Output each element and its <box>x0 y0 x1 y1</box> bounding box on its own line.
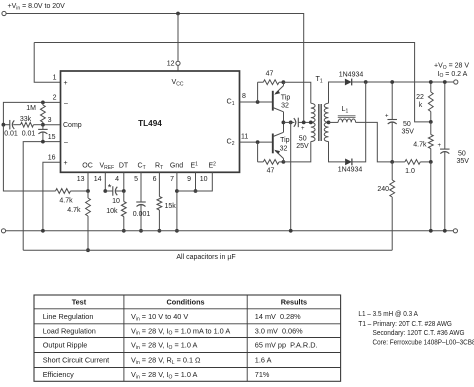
svg-text:1.0: 1.0 <box>405 168 415 175</box>
svg-text:Output Ripple: Output Ripple <box>43 341 88 350</box>
node E1 E2 bus to gnd <box>175 189 179 193</box>
resistor R 4.7k horizontal VREF <box>56 189 71 194</box>
svg-text:1M: 1M <box>26 105 36 112</box>
wire feedback line from output divider to pin 1 <box>34 43 430 122</box>
capacitor C 50uF 35V first filter <box>391 82 393 120</box>
svg-text:4.7k: 4.7k <box>59 197 73 204</box>
svg-text:240: 240 <box>377 186 389 193</box>
diode D1 1N4934 upper <box>345 79 352 86</box>
wire pin 8 C1 to Q1 base <box>240 101 273 103</box>
node primary center tap <box>309 121 313 125</box>
svg-text:1: 1 <box>53 75 57 82</box>
svg-text:L1 – 3.5 mH @ 0.3 A: L1 – 3.5 mH @ 0.3 A <box>358 310 418 318</box>
svg-text:11: 11 <box>241 133 248 140</box>
wire secondary top to diode D1 <box>329 82 345 103</box>
node C1 junction <box>256 100 260 104</box>
wire collector ground drop <box>290 122 292 230</box>
svg-text:14: 14 <box>94 176 102 183</box>
node +Vin primary junction <box>302 121 306 125</box>
svg-text:50: 50 <box>403 121 411 128</box>
svg-text:–: – <box>64 139 68 146</box>
svg-text:–: – <box>64 100 68 107</box>
wire pin 5 CT <box>140 172 142 202</box>
resistor R 22k divider top <box>430 82 432 92</box>
svg-text:Vin = 10 V to 40 V: Vin = 10 V to 40 V <box>131 312 188 322</box>
svg-text:Vin = 28 V, IO = 1.0 A: Vin = 28 V, IO = 1.0 A <box>131 370 198 380</box>
resistor R 1.0 ohm <box>405 160 420 165</box>
svg-text:DT: DT <box>119 163 129 170</box>
svg-text:5: 5 <box>134 176 138 183</box>
transistor Q2 TIP32 lower <box>272 134 274 154</box>
svg-text:Tip: Tip <box>280 137 290 144</box>
wire pin 11 C2 to Q2 base <box>240 141 274 143</box>
transformer T1 secondary winding <box>324 103 328 122</box>
node 10k ground junction <box>122 229 126 233</box>
svg-text:10: 10 <box>112 198 120 205</box>
node Q1 emitter junction <box>282 80 286 84</box>
svg-text:65 mV pp P.A.R.D.: 65 mV pp P.A.R.D. <box>255 341 318 350</box>
terminal +Vin input <box>2 11 6 15</box>
wire pin 2 <box>3 102 60 124</box>
wire pin 13 OC <box>87 172 89 191</box>
resistor R 33k horizontal <box>21 122 34 127</box>
node pin2 line - cap junction <box>2 123 6 127</box>
node ground drop junction <box>289 121 293 125</box>
node CT ground junction <box>139 229 143 233</box>
node D2 return junction <box>364 80 368 84</box>
svg-text:7: 7 <box>170 176 174 183</box>
svg-text:13: 13 <box>77 176 85 183</box>
terminal ground left <box>1 229 5 233</box>
node C2 junction <box>256 140 260 144</box>
wire pin 1 <box>34 43 60 83</box>
svg-text:32: 32 <box>280 145 288 152</box>
wire pin 4 DT <box>123 172 125 191</box>
svg-text:0.01: 0.01 <box>22 131 36 138</box>
svg-text:2: 2 <box>53 95 57 102</box>
IC U1 TL494 body <box>61 71 240 172</box>
svg-text:50: 50 <box>458 151 466 158</box>
resistor R 240 current sense <box>391 162 393 180</box>
svg-text:16: 16 <box>48 154 56 161</box>
transformer T1 core <box>318 104 320 141</box>
svg-text:50: 50 <box>299 136 307 143</box>
svg-text:Efficiency: Efficiency <box>43 370 74 379</box>
node cap-pin15 junction <box>41 140 45 144</box>
node cap2 rail junction <box>443 80 447 84</box>
svg-text:15: 15 <box>48 134 56 141</box>
svg-text:12: 12 <box>167 61 175 68</box>
resistor R 15k timing <box>157 197 162 211</box>
svg-text:Conditions: Conditions <box>166 298 204 307</box>
svg-text:22: 22 <box>416 94 424 101</box>
node Q2 emitter junction <box>282 160 286 164</box>
svg-text:Comp: Comp <box>63 122 82 129</box>
resistor R 1M vertical <box>41 105 46 122</box>
node pin14 junction <box>103 189 107 193</box>
svg-text:25V: 25V <box>296 143 309 150</box>
svg-text:k: k <box>419 102 423 109</box>
svg-text:+: + <box>64 160 68 167</box>
svg-text:6: 6 <box>153 176 157 183</box>
svg-text:+: + <box>301 126 305 132</box>
svg-text:*: * <box>108 182 112 193</box>
node comp junction <box>41 123 45 127</box>
transistor Q1 TIP32 upper <box>272 91 274 111</box>
capacitor C 0.01 vertical comp to pin15 <box>42 125 44 130</box>
terminal ground right <box>453 229 457 233</box>
wire Vcc drop to pin 12 <box>177 14 179 62</box>
diode D2 1N4934 lower <box>345 159 352 166</box>
svg-text:3.0 mV 0.06%: 3.0 mV 0.06% <box>255 326 303 335</box>
node 1.0 right junction <box>429 160 433 164</box>
svg-text:+: + <box>385 113 389 119</box>
wire lower sense rail <box>23 249 392 251</box>
svg-text:10: 10 <box>200 176 208 183</box>
wire pin 9 E1 <box>195 172 197 191</box>
wire +Vo rail <box>352 81 454 83</box>
node gnd junction pin16 line <box>41 229 45 233</box>
svg-text:1N4934: 1N4934 <box>339 72 364 79</box>
svg-text:Gnd: Gnd <box>170 163 183 170</box>
svg-text:35V: 35V <box>457 158 470 165</box>
svg-text:Results: Results <box>281 298 307 307</box>
capacitor C 10uF soft start <box>105 190 113 192</box>
wire ground rail <box>6 230 454 232</box>
wire pin 6 RT <box>158 172 160 196</box>
node cap2 gnd junction <box>443 229 447 233</box>
pin 12 terminal circle <box>176 61 180 65</box>
terminal +Vo output <box>454 80 458 84</box>
svg-text:33k: 33k <box>20 116 32 123</box>
svg-text:T1 – Primary: 20T C.T. #28 AWG: T1 – Primary: 20T C.T. #28 AWG <box>358 320 452 328</box>
svg-text:1N4934: 1N4934 <box>338 166 363 173</box>
wire pin 15 <box>23 142 60 251</box>
wire pin 7 Gnd <box>176 172 178 231</box>
svg-text:0.01: 0.01 <box>4 131 18 138</box>
node cap1 top rail junction <box>390 80 394 84</box>
wire secondary bottom to diode D2 <box>329 142 346 162</box>
node collectors junction <box>282 121 286 125</box>
svg-text:9: 9 <box>187 176 191 183</box>
svg-text:TL494: TL494 <box>138 119 162 128</box>
svg-text:8: 8 <box>242 93 246 100</box>
capacitor C 50uF 35V output <box>444 82 446 149</box>
wire Q1 emitter to primary top <box>283 82 310 103</box>
svg-text:All capacitors in µF: All capacitors in µF <box>176 254 235 261</box>
node filter node junction <box>390 160 394 164</box>
svg-text:+: + <box>437 143 441 149</box>
node pin9 junction <box>194 189 198 193</box>
svg-text:35V: 35V <box>402 129 415 136</box>
wire pin 14 VREF <box>104 172 106 191</box>
wire divider to ground rail <box>430 162 432 231</box>
svg-text:4.7k: 4.7k <box>413 142 427 149</box>
svg-text:Short Circuit Current: Short Circuit Current <box>43 356 110 365</box>
wire pin 3 Comp <box>43 124 60 126</box>
inductor L1 filter choke <box>329 121 339 123</box>
svg-text:Line Regulation: Line Regulation <box>43 312 94 321</box>
capacitor C 0.01 horizontal series <box>9 120 11 130</box>
wire Q2 emitter to primary bottom <box>283 142 310 162</box>
node pin13 VREF junction <box>86 189 90 193</box>
node pin2-1M junction <box>41 101 45 105</box>
svg-text:32: 32 <box>281 102 289 109</box>
svg-text:Vin = 28 V, IO = 1.0 A: Vin = 28 V, IO = 1.0 A <box>131 341 198 351</box>
table performance results <box>34 295 341 381</box>
svg-text:1.6 A: 1.6 A <box>255 356 272 365</box>
svg-text:10k: 10k <box>106 208 118 215</box>
resistor R 4.7k divider bottom <box>430 122 432 135</box>
node pin4 junction <box>122 189 126 193</box>
svg-text:0.001: 0.001 <box>133 211 151 218</box>
wire pin 10 E2 bus <box>177 172 212 191</box>
svg-text:Load Regulation: Load Regulation <box>43 326 96 335</box>
node Vcc junction on +Vin rail <box>176 12 180 16</box>
node gnd junction center <box>289 229 293 233</box>
svg-text:Core: Ferroxcube 1408P–L00–3CB: Core: Ferroxcube 1408P–L00–3CB8 <box>373 339 474 347</box>
wire L1 to filter node <box>356 122 393 161</box>
wire pin 16 to ground rail <box>43 162 60 231</box>
capacitor C 50uF 25V coupling <box>297 118 299 128</box>
node divider mid junction <box>429 120 433 124</box>
node 4.7k lower rail junction <box>86 248 90 252</box>
svg-text:4: 4 <box>115 176 119 183</box>
svg-text:Vin = 28 V, IO = 1.0 mA to 1.0: Vin = 28 V, IO = 1.0 mA to 1.0 A <box>131 326 230 336</box>
resistor R 47 upper <box>257 82 259 102</box>
svg-text:47: 47 <box>266 71 274 78</box>
resistor R 10k <box>123 191 125 202</box>
resistor R 47 lower <box>257 142 259 162</box>
svg-text:Test: Test <box>72 298 87 307</box>
wire pin2 compensation to VREF node <box>3 125 55 191</box>
svg-text:Secondary: 120T C.T. #36 AWG: Secondary: 120T C.T. #36 AWG <box>373 329 465 337</box>
svg-text:Vin = 28 V, RL = 0.1 Ω: Vin = 28 V, RL = 0.1 Ω <box>131 356 201 366</box>
svg-text:4.7k: 4.7k <box>67 207 81 214</box>
svg-text:14 mV 0.28%: 14 mV 0.28% <box>255 312 301 321</box>
node divider gnd junction <box>429 229 433 233</box>
transformer T1 primary winding <box>311 103 315 122</box>
node rail 22k junction <box>429 80 433 84</box>
wire D2 cathode up to +Vo rail <box>352 82 366 162</box>
wire top +Vin rail <box>6 14 304 123</box>
svg-text:OC: OC <box>82 163 93 170</box>
svg-text:15k: 15k <box>165 203 177 210</box>
node secondary center tap <box>327 121 331 125</box>
svg-text:3: 3 <box>48 117 52 124</box>
capacitor C 0.001 timing <box>136 201 146 203</box>
resistor R 4.7k vertical to lower rail <box>87 191 89 198</box>
node gnd rail junction pin7 <box>175 229 179 233</box>
svg-text:+: + <box>64 80 68 87</box>
svg-text:71%: 71% <box>255 370 270 379</box>
node RT ground junction <box>158 229 162 233</box>
svg-text:47: 47 <box>267 167 275 174</box>
svg-text:Tip: Tip <box>281 94 291 101</box>
